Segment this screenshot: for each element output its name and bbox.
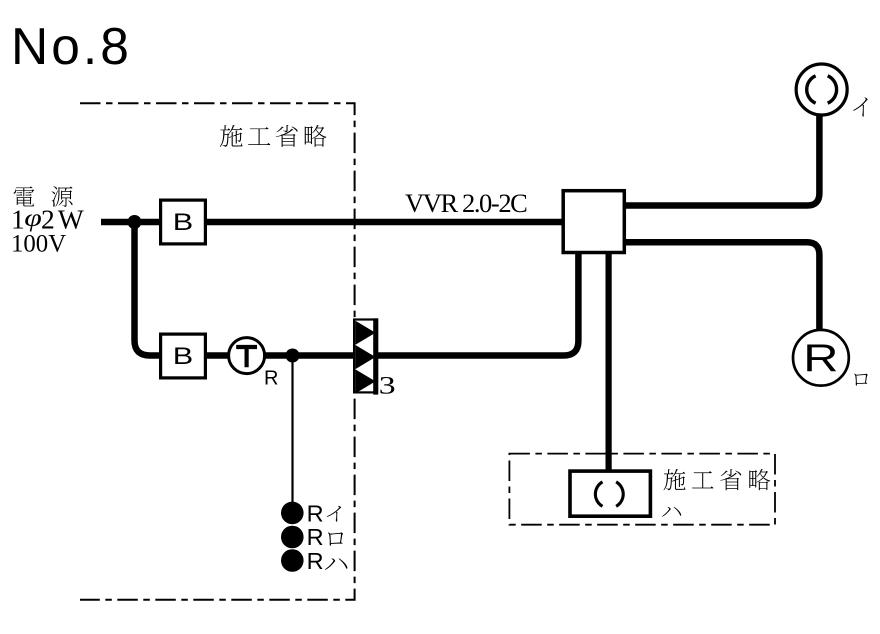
relay lamp legend dot R-RO (281, 526, 304, 549)
omission area border, left block, dash-dot open on left side (80, 103, 355, 600)
omission label bottom char k-kou (692, 471, 713, 488)
thin lead down to relay lamp legend (291, 356, 293, 503)
omission label top char k-shi (220, 125, 243, 147)
svg-text:B: B (173, 342, 193, 369)
square hook-ceiling box HA (570, 471, 650, 516)
wire: branch down through breaker B2, timer and relays to junction box (135, 224, 579, 356)
timer TR (229, 338, 279, 390)
wire: junction box down to square hook-ceiling box (605, 251, 611, 470)
svg-text:100V: 100V (11, 231, 66, 258)
svg-text:φ: φ (24, 204, 42, 232)
junction box (563, 191, 624, 253)
lamp receptacle circle I (top right) (796, 64, 847, 115)
breaker B2 (161, 334, 206, 378)
svg-text:R: R (307, 548, 324, 574)
relay lamp legend dot R-I (281, 502, 304, 525)
junction dot on source line (128, 215, 142, 229)
legend katakana HA (325, 558, 347, 570)
breaker B1 (161, 200, 206, 244)
wire: junction box to lamp R RO (bottom right) (626, 242, 819, 330)
omission label top char k-kou (248, 127, 270, 145)
svg-text:R: R (307, 524, 324, 550)
wire: source feed to junction box (101, 219, 563, 226)
source label GEN (52, 186, 73, 207)
omission area border around hook-ceiling HA (dash-dot) (509, 454, 775, 525)
lamp R circle RO (bottom right) (793, 330, 849, 386)
omission label bottom char k-ryaku (749, 469, 770, 490)
omission label top char k-sho (276, 125, 298, 147)
source label DEN (14, 186, 35, 206)
svg-text:R: R (307, 501, 324, 527)
relay lamp legend dot R-HA (281, 549, 304, 572)
omission label top char k-ryaku (305, 125, 327, 147)
legend katakana I (327, 506, 341, 522)
wire: junction box to lamp receptacle I (top right) (626, 115, 819, 206)
omission label bottom char k-shi (664, 469, 686, 490)
svg-text:VVR 2.0-2C: VVR 2.0-2C (405, 188, 527, 218)
svg-text:R: R (264, 368, 278, 390)
label katakana I at receptacle (853, 97, 867, 116)
svg-text:R: R (803, 337, 838, 380)
svg-text:3: 3 (379, 372, 396, 399)
junction dot after timer (286, 349, 300, 363)
omission label bottom char k-sho (720, 469, 741, 490)
remote-control relay stack (3 relays) (354, 318, 377, 394)
legend katakana RO (328, 532, 343, 545)
label katakana HA at bottom box (662, 507, 681, 517)
svg-text:B: B (173, 208, 193, 235)
label katakana RO at lamp R (854, 374, 868, 386)
svg-text:No.8: No.8 (11, 17, 132, 75)
